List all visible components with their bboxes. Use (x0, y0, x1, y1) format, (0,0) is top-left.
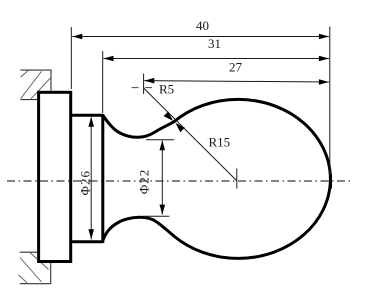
cylinder Φ26 edges and end face (71, 114, 103, 243)
dimension 27 (144, 60, 329, 85)
svg-text:27: 27 (229, 60, 243, 75)
chuck jaw top hatch (21, 70, 51, 100)
dimension Φ22 ticks (146, 139, 174, 141)
centerline (dash-dot axis) (7, 180, 352, 182)
extension line right (sphere tangent) (329, 27, 331, 177)
dimension 40 (72, 18, 329, 40)
tangent tick at sphere right (330, 175, 332, 189)
dimension 31 (104, 36, 329, 62)
dimension Φ22 (137, 140, 166, 214)
radius leader line R5/R15 (144, 88, 237, 181)
extension line (cylinder end, dim 31) (102, 51, 104, 113)
chuck jaw bottom hatch (19, 252, 49, 282)
chuck jaw top (hatched) (20, 70, 51, 100)
svg-text:40: 40 (196, 18, 209, 33)
extension line left (flange face, dim 40) (70, 27, 72, 89)
arrowhead on fillet (R5) (164, 112, 173, 121)
R5 center cross (143, 74, 145, 95)
svg-text:Φ22: Φ22 (137, 169, 152, 195)
dimension Φ26 (78, 117, 95, 240)
svg-text:R15: R15 (209, 134, 231, 149)
workpiece flange (39, 92, 71, 261)
chuck jaw bottom (hatched) (20, 252, 51, 284)
profile: neck fillet + sphere outline (103, 99, 331, 258)
arrowhead on sphere (R15) (176, 123, 185, 132)
svg-text:Φ26: Φ26 (78, 170, 93, 196)
svg-text:31: 31 (208, 36, 221, 51)
svg-text:R5: R5 (159, 82, 174, 97)
sphere center cross (236, 169, 238, 189)
